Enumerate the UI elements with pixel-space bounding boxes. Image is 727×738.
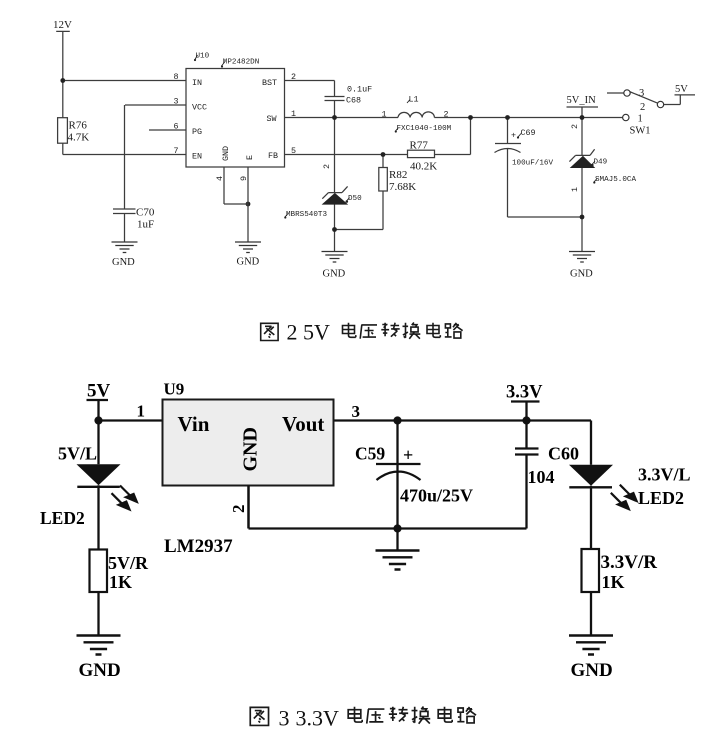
svg-text:C59: C59: [355, 444, 385, 464]
svg-text:LM2937: LM2937: [164, 536, 233, 557]
svg-text:GND: GND: [323, 269, 346, 280]
svg-text:104: 104: [528, 467, 555, 487]
svg-text:2: 2: [291, 72, 296, 82]
svg-text:2: 2: [640, 102, 645, 113]
svg-text:LED2: LED2: [40, 508, 85, 528]
svg-text:4.7K: 4.7K: [68, 132, 90, 144]
svg-text:C69: C69: [521, 128, 536, 138]
svg-text:R77: R77: [410, 140, 429, 152]
svg-text:3: 3: [279, 706, 290, 731]
svg-text:GND: GND: [221, 146, 231, 161]
svg-text:40.2K: 40.2K: [410, 161, 437, 173]
svg-text:2: 2: [322, 164, 332, 169]
svg-text:3: 3: [174, 97, 179, 107]
svg-text:1K: 1K: [109, 572, 132, 592]
svg-text:Vin: Vin: [178, 412, 210, 436]
svg-text:5V/R: 5V/R: [108, 553, 149, 573]
svg-text:R82: R82: [389, 169, 407, 181]
svg-text:E: E: [245, 155, 255, 160]
svg-text:12V: 12V: [53, 19, 72, 31]
svg-text:5V: 5V: [87, 381, 111, 402]
svg-text:GND: GND: [79, 660, 121, 681]
svg-text:C60: C60: [548, 444, 579, 464]
svg-text:7: 7: [174, 146, 179, 156]
svg-text:SW1: SW1: [630, 125, 651, 136]
svg-text:9: 9: [239, 176, 249, 181]
svg-text:GND: GND: [570, 269, 593, 280]
svg-text:U9: U9: [164, 380, 185, 399]
svg-text:5V_IN: 5V_IN: [567, 95, 597, 106]
svg-text:1uF: 1uF: [137, 218, 154, 230]
svg-text:2: 2: [570, 124, 580, 129]
svg-text:1: 1: [570, 187, 580, 192]
svg-text:7.68K: 7.68K: [389, 181, 416, 193]
svg-text:D50: D50: [348, 195, 362, 203]
svg-text:Vout: Vout: [282, 412, 324, 436]
svg-text:3.3V: 3.3V: [296, 706, 340, 731]
svg-text:D49: D49: [594, 159, 608, 167]
svg-text:GND: GND: [240, 427, 262, 471]
svg-text:GND: GND: [112, 257, 135, 268]
svg-text:1: 1: [291, 109, 296, 119]
svg-text:2: 2: [444, 109, 449, 119]
svg-text:GND: GND: [237, 257, 260, 268]
svg-text:5V: 5V: [675, 84, 688, 95]
svg-text:1: 1: [382, 109, 387, 119]
svg-text:8: 8: [174, 72, 179, 82]
svg-text:5V/L: 5V/L: [58, 444, 97, 464]
svg-text:+: +: [511, 131, 516, 141]
svg-text:EN: EN: [192, 152, 202, 162]
svg-text:3: 3: [352, 402, 361, 421]
svg-text:L1: L1: [409, 95, 419, 105]
svg-text:6: 6: [174, 121, 179, 131]
svg-text:0.1uF: 0.1uF: [347, 85, 372, 95]
svg-text:C70: C70: [136, 207, 155, 219]
svg-text:SMAJ5.0CA: SMAJ5.0CA: [595, 176, 636, 184]
svg-text:IN: IN: [192, 78, 202, 88]
svg-text:3.3V/L: 3.3V/L: [638, 465, 691, 485]
svg-text:MP2482DN: MP2482DN: [223, 59, 259, 67]
svg-text:2 5V: 2 5V: [287, 320, 331, 345]
svg-text:5: 5: [291, 146, 296, 156]
svg-text:+: +: [403, 445, 413, 465]
svg-text:4: 4: [215, 176, 225, 181]
svg-text:470u/25V: 470u/25V: [400, 486, 473, 506]
svg-text:U10: U10: [196, 53, 210, 61]
svg-text:VCC: VCC: [192, 102, 207, 112]
svg-text:2: 2: [229, 505, 248, 514]
svg-text:C68: C68: [346, 96, 361, 106]
svg-text:BST: BST: [262, 78, 277, 88]
svg-text:1: 1: [638, 114, 643, 125]
svg-text:3: 3: [639, 88, 644, 99]
svg-text:MBRS540T3: MBRS540T3: [286, 211, 327, 219]
svg-text:FXC1040-100M: FXC1040-100M: [397, 125, 452, 133]
svg-text:GND: GND: [571, 660, 613, 681]
svg-text:100uF/16V: 100uF/16V: [512, 160, 553, 168]
svg-text:3.3V: 3.3V: [506, 383, 543, 403]
svg-text:3.3V/R: 3.3V/R: [601, 552, 658, 573]
svg-text:1: 1: [137, 402, 146, 421]
svg-text:SW: SW: [267, 114, 278, 124]
svg-text:R76: R76: [69, 120, 88, 132]
svg-text:1K: 1K: [602, 572, 625, 592]
svg-text:LED2: LED2: [638, 488, 684, 508]
svg-text:PG: PG: [192, 127, 202, 137]
svg-text:FB: FB: [268, 151, 278, 161]
